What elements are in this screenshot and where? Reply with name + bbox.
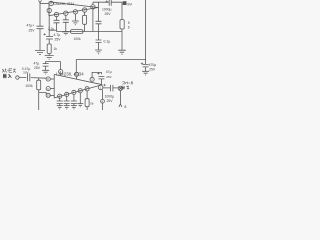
svg-text:0.1µ: 0.1µ [104, 39, 111, 43]
pin circle B3 [72, 90, 76, 94]
wire L3 stub [50, 94, 54, 96]
pin circle C [54, 12, 58, 16]
ground G1 [35, 51, 45, 55]
ground G2 [45, 56, 54, 60]
pin circle B4 [78, 89, 82, 93]
wire R6 bottom [86, 107, 88, 110]
wire B2 down [66, 97, 68, 102]
capacitor C13 1000u plates [110, 85, 113, 92]
wire line A [46, 62, 61, 70]
plus sign C8 [97, 72, 99, 74]
svg-text:1000µ: 1000µ [105, 94, 115, 98]
svg-text:5: 5 [128, 21, 130, 25]
svg-text:50V: 50V [23, 71, 28, 75]
capacitor C1 47u plates [37, 26, 44, 50]
pin circle G output [91, 5, 95, 9]
wire line B drop left [75, 59, 77, 72]
feedback line Y31 [57, 31, 123, 33]
ground G9 [57, 106, 63, 109]
wire rail top [93, 1, 122, 3]
wire G down feedback [92, 9, 94, 32]
op-amp U1 triangle [49, 2, 98, 16]
svg-text:8: 8 [124, 105, 126, 109]
svg-text:6: 6 [128, 26, 130, 30]
wire output down [119, 91, 121, 104]
pin circle B5 [85, 87, 89, 91]
svg-text:1k: 1k [54, 47, 58, 51]
pin circle L2 [46, 87, 50, 91]
pin circle T2 [75, 72, 79, 76]
wire bootstrap line [92, 72, 101, 77]
resistor R1 box [47, 44, 51, 54]
wire OUT down [102, 90, 104, 110]
resistor R3 100k box [71, 30, 84, 34]
wire W4 [49, 29, 56, 31]
svg-text:100k: 100k [25, 84, 33, 88]
pin circle OUT [98, 85, 103, 90]
wire R5 bottom [39, 90, 46, 110]
ground G5 [72, 21, 79, 25]
resistor R6 box [85, 99, 89, 107]
pin circle E [73, 10, 77, 14]
pin circle mute [101, 99, 105, 103]
pin circle T1 [59, 70, 63, 74]
pin circle L3 [46, 93, 50, 97]
wire L2 stub [50, 88, 54, 90]
wire line B supply [76, 58, 145, 60]
ground G10 [64, 106, 70, 109]
capacitor C5 0.1u plates [96, 40, 102, 50]
pin circle B2 [65, 92, 69, 96]
wire T2 stub [76, 77, 78, 80]
capacitor C7 47u plates [43, 64, 49, 71]
wire supply vertical right [145, 0, 147, 64]
capacitor C9 0.47u plates [27, 73, 29, 81]
capacitor C11 plates [64, 101, 70, 106]
wire pin E down [74, 14, 76, 21]
wire rail down right [121, 2, 123, 19]
wire T1 stub [60, 74, 62, 76]
capacitor C2 plates [54, 20, 60, 31]
wire B1 down [59, 98, 61, 101]
pin circle A [49, 1, 53, 5]
svg-text:25V: 25V [107, 99, 114, 103]
wire R4 to ground [121, 29, 123, 50]
wire to pin 4 [40, 3, 49, 5]
terminal output circle [118, 86, 122, 90]
pin circle B [47, 8, 51, 12]
plus sign 470u [141, 62, 143, 64]
svg-text:2.2µ: 2.2µ [48, 27, 54, 31]
plus sign 1000u top [106, 0, 108, 2]
resistor R5 100k [38, 78, 40, 80]
ground G7 [118, 50, 126, 54]
ground G8 [142, 71, 149, 75]
capacitor C12 plates [71, 101, 77, 106]
svg-text:4.7µ: 4.7µ [54, 33, 61, 37]
capacitor C3 plates [63, 20, 69, 32]
resistor R2 box [83, 15, 87, 24]
op-amp U2 triangle [54, 74, 102, 98]
ground G6 [95, 50, 102, 54]
svg-text:25V: 25V [106, 75, 111, 79]
wire R2 to line [84, 24, 86, 31]
svg-text:25V: 25V [105, 12, 112, 16]
svg-text:47µ+: 47µ+ [27, 24, 35, 28]
capacitor C8 47u plates [98, 76, 104, 85]
pin circle F [82, 8, 86, 12]
wire B5 down [86, 91, 88, 99]
capacitor C6 470u plates [143, 64, 149, 71]
svg-text:LA4230, 4234: LA4230, 4234 [54, 2, 75, 6]
pin circle T3 [90, 77, 94, 81]
capacitor C 1000u plates [109, 0, 111, 6]
wire output [103, 87, 118, 89]
svg-text:47µ: 47µ [106, 70, 112, 74]
wire B4 down [79, 93, 81, 104]
resistor R4 box [120, 20, 124, 29]
svg-text:47µ: 47µ [34, 61, 40, 65]
svg-text:25V: 25V [149, 67, 156, 71]
wire pin F down [84, 12, 86, 15]
capacitor C10 plates [57, 101, 63, 106]
ground G3 [42, 70, 49, 74]
svg-text:25V: 25V [29, 28, 36, 32]
ground G4 [62, 32, 69, 35]
svg-text:470µ: 470µ [149, 63, 157, 67]
node supply blob [123, 1, 127, 5]
ground G12 [77, 104, 83, 107]
svg-text:9V: 9V [127, 1, 132, 6]
wire L1 stub [50, 78, 54, 80]
node fork bottom [119, 104, 122, 107]
wire B3 down [73, 95, 75, 102]
wire pin B down [48, 13, 50, 37]
pin circle B1 [58, 94, 62, 98]
wire pin D down [65, 15, 67, 19]
svg-text:56: 56 [90, 102, 94, 106]
svg-text:25V: 25V [34, 66, 41, 70]
wire pin C down [56, 17, 58, 21]
input terminal circle [16, 76, 19, 79]
svg-text:100k: 100k [74, 37, 82, 41]
wire input fork top-left [39, 0, 42, 26]
ground G11 [71, 106, 77, 109]
pin circle D [64, 11, 68, 15]
wire G up to rail [92, 2, 94, 4]
svg-text:1000µ: 1000µ [102, 8, 112, 12]
wire input [19, 77, 46, 80]
svg-text:25V: 25V [55, 38, 62, 42]
capacitor C4 plates [96, 21, 102, 40]
wire R1 to ground [48, 54, 50, 56]
plus sign C13 [103, 84, 105, 86]
plus sign 4.7u [44, 33, 46, 35]
capacitor C 4.7u plates [46, 37, 53, 45]
wire zobel x98 [98, 2, 100, 21]
pin circle L1 [46, 77, 50, 81]
